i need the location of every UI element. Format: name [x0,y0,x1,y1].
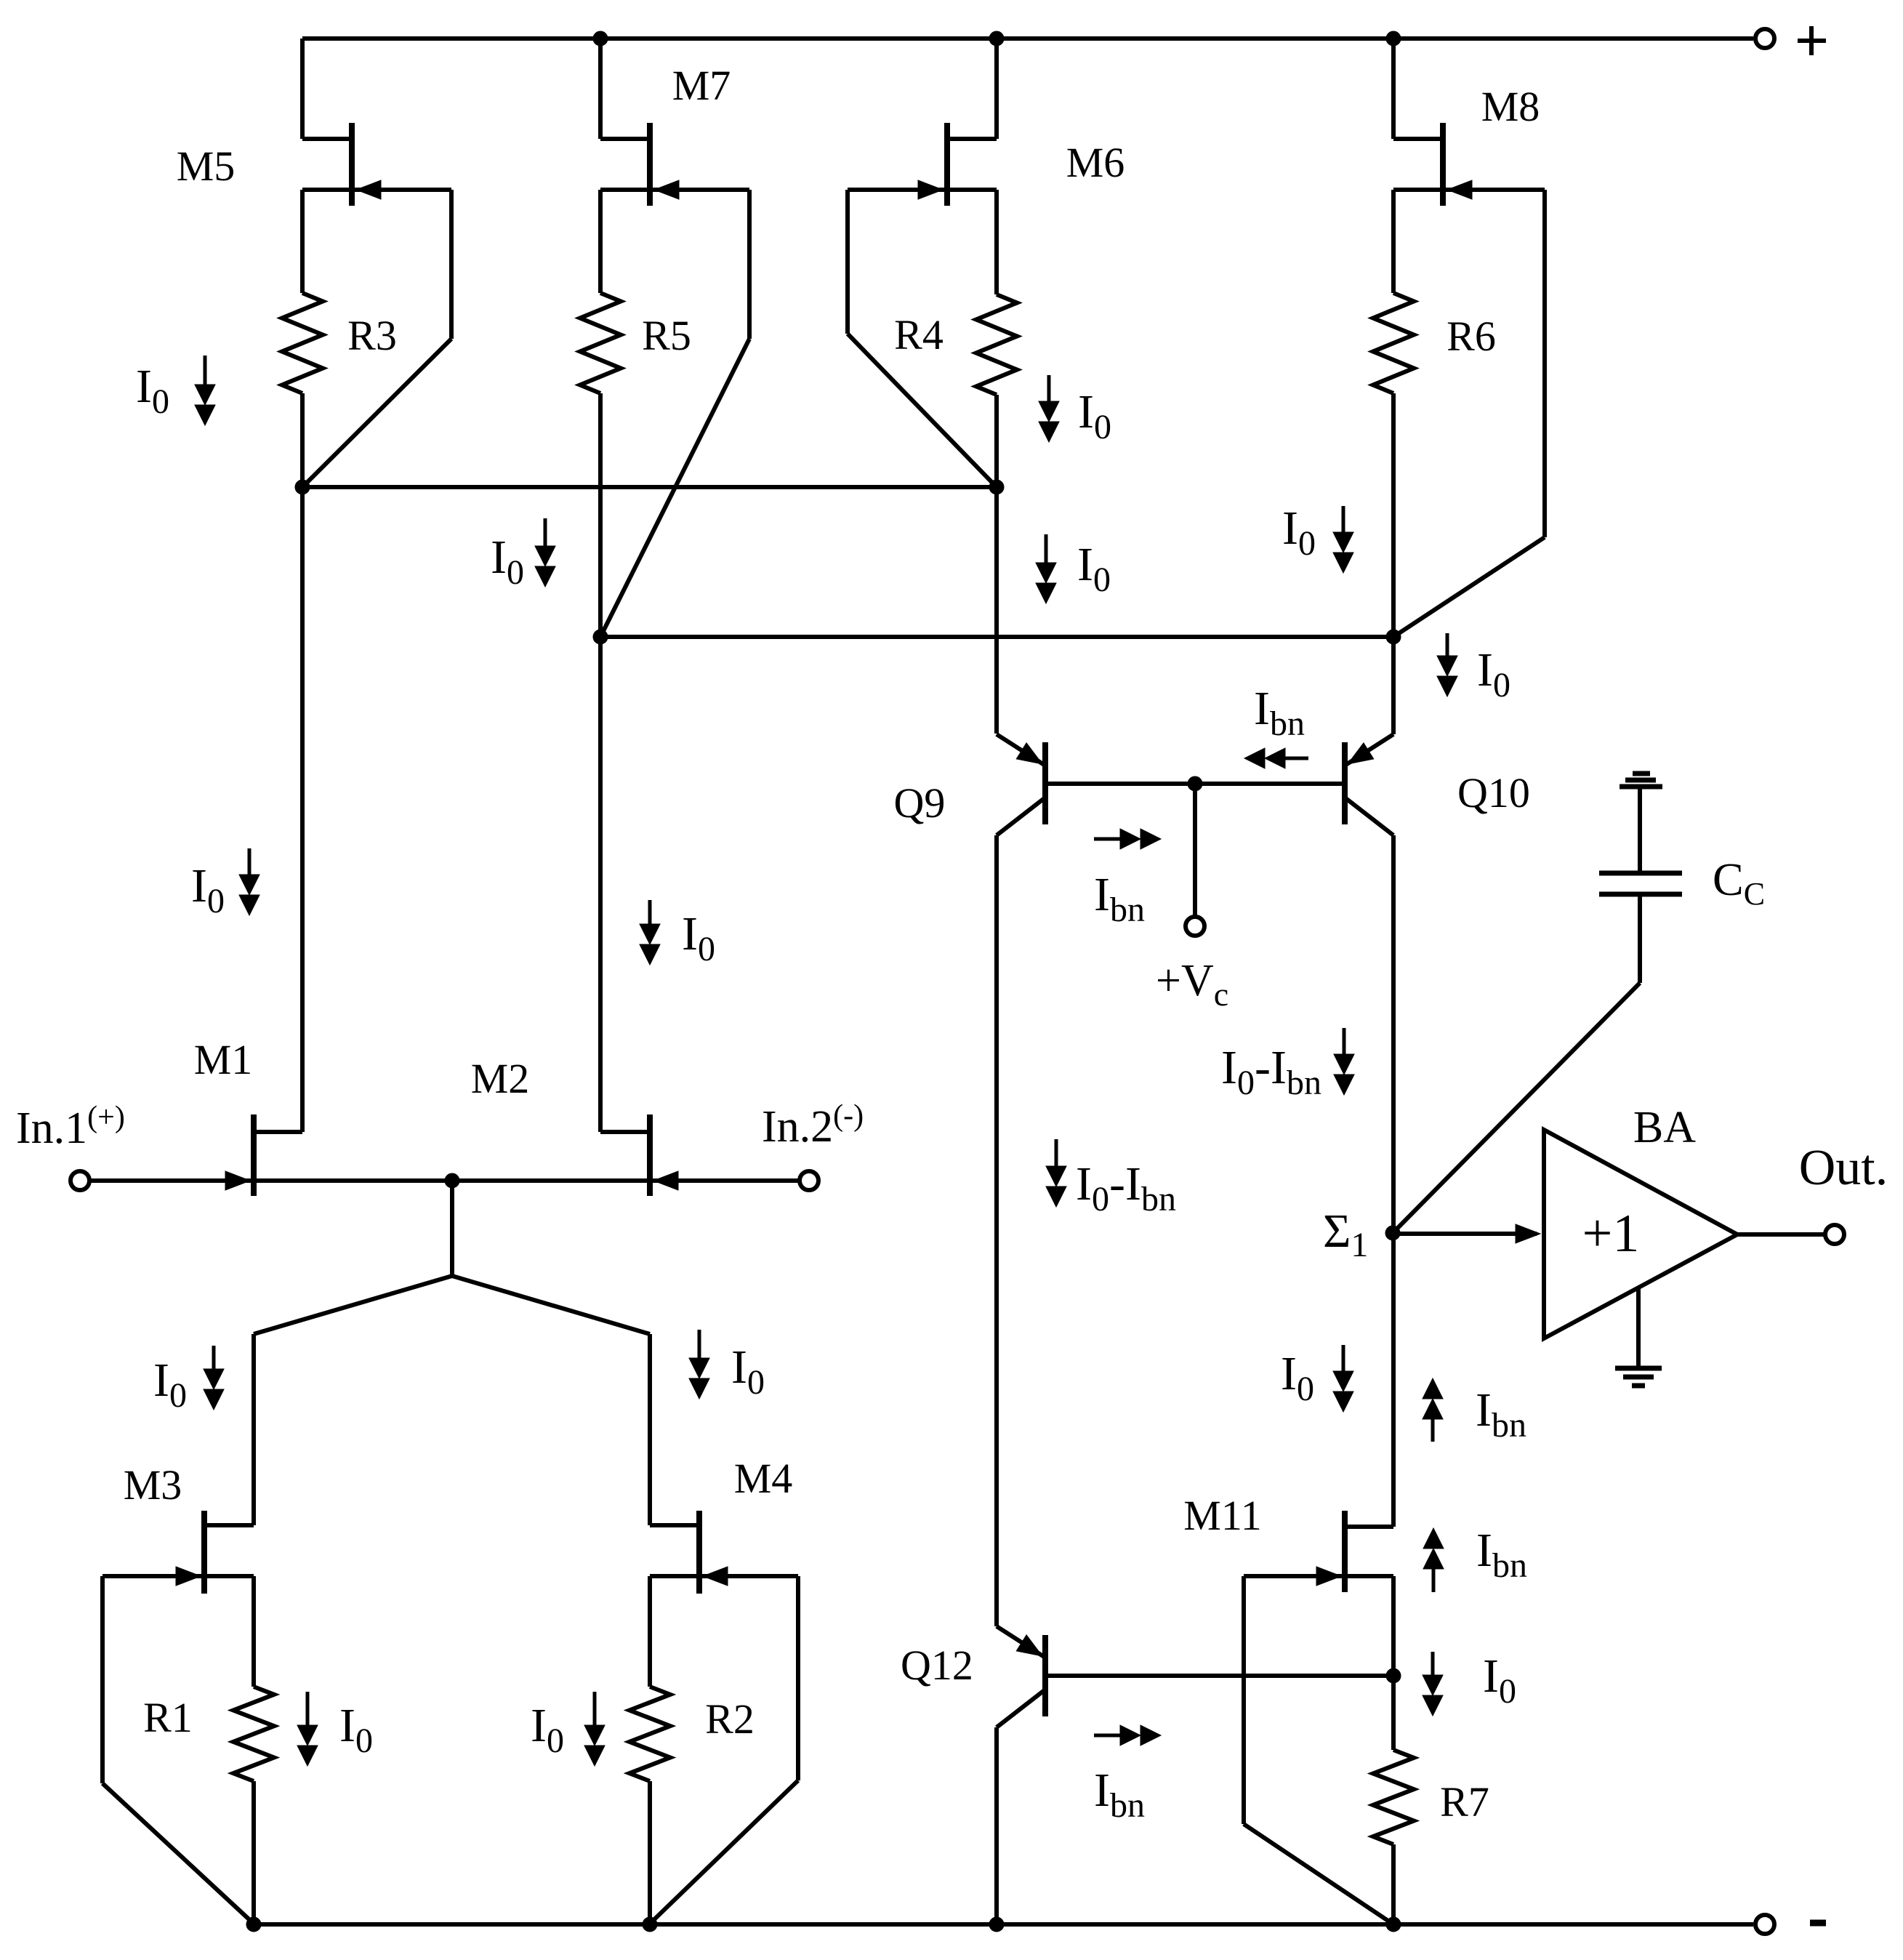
svg-text:R6: R6 [1447,313,1496,360]
svg-text:Q10: Q10 [1457,769,1530,816]
svg-text:M6: M6 [1066,139,1125,186]
svg-text:R3: R3 [347,312,397,359]
svg-text:Q12: Q12 [901,1642,973,1689]
svg-text:Out.: Out. [1799,1140,1888,1196]
svg-text:R5: R5 [642,312,691,359]
svg-text:M5: M5 [177,142,236,190]
svg-text:M7: M7 [672,62,731,109]
svg-text:R4: R4 [894,311,944,358]
svg-text:R7: R7 [1440,1778,1489,1826]
svg-text:M1: M1 [194,1036,253,1083]
svg-text:+1: +1 [1582,1204,1640,1264]
svg-text:M3: M3 [124,1461,182,1509]
svg-text:BA: BA [1633,1103,1696,1152]
svg-text:M2: M2 [471,1055,530,1102]
svg-text:M11: M11 [1183,1492,1261,1539]
svg-text:R2: R2 [705,1695,755,1743]
svg-text:M4: M4 [734,1455,793,1502]
svg-text:Q9: Q9 [894,779,946,827]
svg-text:R1: R1 [143,1694,193,1741]
svg-text:M8: M8 [1481,83,1540,130]
